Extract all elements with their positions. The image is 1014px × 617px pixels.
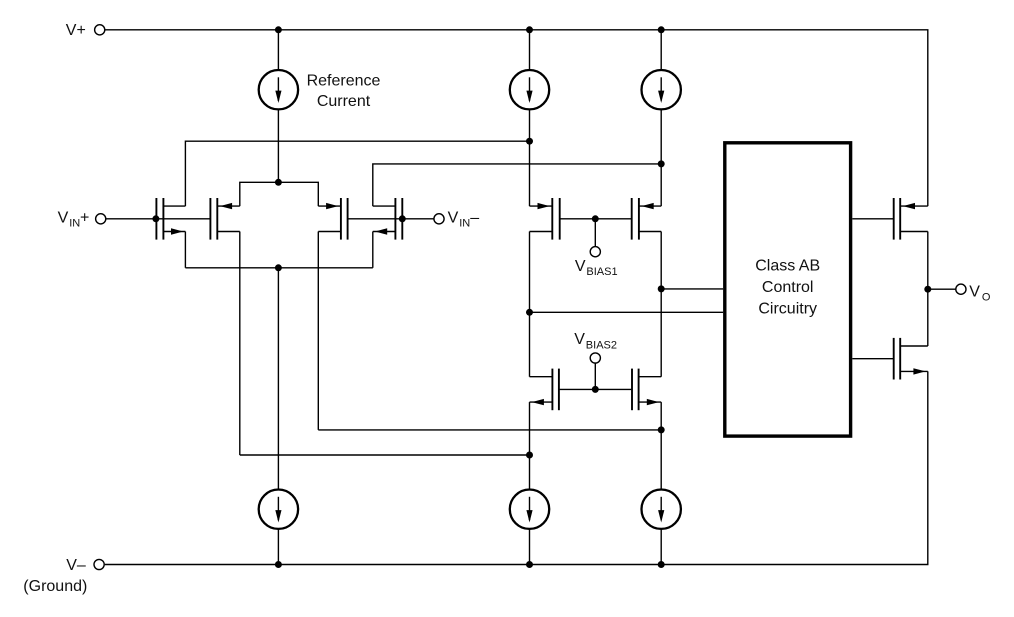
wire I1 to input PMOS tail xyxy=(277,109,279,182)
node Q5 summing tap xyxy=(526,309,533,316)
wire lower-left source column xyxy=(529,402,531,489)
wire NMOS tail xyxy=(185,267,372,269)
svg-text:–: – xyxy=(470,209,479,226)
label (Ground) xyxy=(23,578,87,595)
node PMOS tail xyxy=(275,179,282,186)
label VO xyxy=(969,284,991,304)
svg-text:Circuitry: Circuitry xyxy=(758,300,817,317)
svg-text:V: V xyxy=(58,209,69,226)
node VIN+/Q1 gate xyxy=(152,215,159,222)
svg-text:BIAS2: BIAS2 xyxy=(586,339,617,351)
transistor Q4 (VIN- outer NMOS) xyxy=(373,198,403,240)
wire VBIAS2 stub xyxy=(594,363,596,389)
wire PMOS tail split xyxy=(240,182,318,206)
wire VO lead xyxy=(928,288,956,290)
terminal V+ xyxy=(95,25,105,35)
svg-text:Current: Current xyxy=(317,93,371,110)
node Q6 summing tap xyxy=(658,285,665,292)
wire I3 top lead xyxy=(660,30,662,70)
transistor Q8 (lower mirror right) xyxy=(632,369,661,411)
wire I2 top lead xyxy=(529,30,531,70)
label VBIAS1 xyxy=(575,258,618,278)
wire VIN- lead xyxy=(348,218,434,220)
node mirror-left junction xyxy=(526,452,533,459)
wire Q5 source down xyxy=(529,232,531,377)
node V-/left-sink junction xyxy=(275,561,282,568)
svg-text:+: + xyxy=(80,209,89,226)
transistor Q7 (lower mirror left) xyxy=(530,369,559,411)
wire Q6 source down xyxy=(660,232,662,377)
wire Q3 drain down xyxy=(317,232,319,430)
label V+ xyxy=(66,22,86,39)
node VO xyxy=(924,286,931,293)
wire V+ rail xyxy=(105,30,928,206)
wire summing line 2 to box xyxy=(530,311,724,313)
node V-/right-sink junction xyxy=(658,561,665,568)
svg-text:Reference: Reference xyxy=(307,73,381,90)
wire Q3-drain to mirror-right xyxy=(318,429,661,431)
terminal VO xyxy=(956,284,966,294)
node T4-drain tap xyxy=(658,160,665,167)
node mirror-right junction xyxy=(658,426,665,433)
label Class AB Control Circuitry xyxy=(755,258,820,318)
current source I2 xyxy=(510,70,549,109)
wire Q2-drain to mirror-left xyxy=(240,454,530,456)
label VIN- xyxy=(448,209,480,229)
current source I1 Reference Current xyxy=(259,70,298,109)
svg-text:O: O xyxy=(982,291,991,303)
block Class AB Control Circuitry xyxy=(725,143,851,436)
wire VBIAS1 stub xyxy=(594,219,596,247)
transistor Q6 (upper cascode right) xyxy=(632,198,662,240)
node V-/middle-sink junction xyxy=(526,561,533,568)
wire box to output NMOS gate xyxy=(852,358,893,360)
wire Q2 drain down xyxy=(239,232,241,456)
svg-text:V–: V– xyxy=(66,557,86,574)
current source I4 xyxy=(259,490,298,529)
wire Q1 drain up xyxy=(185,141,529,206)
terminal V- (Ground) xyxy=(94,559,104,569)
svg-text:Class AB: Class AB xyxy=(755,258,820,275)
label V- xyxy=(66,557,86,574)
wire I2 to cascode column xyxy=(529,109,531,206)
transistor Q1 (VIN+ outer NMOS) xyxy=(156,198,185,240)
wire I4 bottom lead xyxy=(277,529,279,565)
wire Q4 source down xyxy=(372,232,374,268)
wire VBIAS1 gate tie xyxy=(560,218,632,220)
wire box to output PMOS gate xyxy=(852,218,893,220)
transistor Q5 (upper cascode left) xyxy=(530,198,560,240)
svg-text:(Ground): (Ground) xyxy=(23,578,87,595)
transistor Q9 (output PMOS) xyxy=(894,198,928,240)
svg-text:Control: Control xyxy=(762,279,814,296)
transistor Q2 (VIN+ inner PMOS) xyxy=(210,198,239,240)
node VBIAS2 gate xyxy=(592,386,599,393)
node VIN-/Q4 gate xyxy=(399,215,406,222)
wire Q1 source down xyxy=(184,232,186,268)
terminal VBIAS2 xyxy=(590,353,600,363)
svg-text:IN: IN xyxy=(459,217,470,229)
wire summing line 1 to box xyxy=(661,288,723,290)
wire output node xyxy=(927,232,929,347)
wire I1 top lead xyxy=(277,30,279,70)
current source I5 xyxy=(510,490,549,529)
wire I5 bottom lead xyxy=(529,529,531,565)
terminal VBIAS1 xyxy=(590,247,600,257)
label VIN+ xyxy=(58,209,90,229)
svg-text:V+: V+ xyxy=(66,22,86,39)
svg-text:V: V xyxy=(574,331,585,348)
wire I3 to cascode column xyxy=(660,109,662,206)
terminal VIN- xyxy=(434,214,444,224)
svg-text:BIAS1: BIAS1 xyxy=(586,266,617,278)
current source I3 xyxy=(642,70,681,109)
node V+/third-source junction xyxy=(658,26,665,33)
label VBIAS2 xyxy=(574,331,617,351)
terminal VIN+ xyxy=(96,214,106,224)
node V+/second-source junction xyxy=(526,26,533,33)
node T1-drain tap xyxy=(526,138,533,145)
svg-text:IN: IN xyxy=(69,217,80,229)
transistor Q10 (output NMOS) xyxy=(894,338,928,380)
wire lower-right source column xyxy=(660,402,662,489)
wire VIN+ lead xyxy=(106,218,210,220)
transistor Q3 (VIN- inner PMOS) xyxy=(318,198,347,240)
wire Q4 drain up xyxy=(373,164,661,206)
wire I6 bottom lead xyxy=(660,529,662,565)
wire NMOS tail to I4 xyxy=(277,268,279,490)
svg-text:V: V xyxy=(575,258,586,275)
node V+/reference-current junction xyxy=(275,26,282,33)
svg-text:V: V xyxy=(969,284,980,301)
wire V- rail xyxy=(105,371,928,564)
label Reference Current xyxy=(307,73,381,110)
svg-text:V: V xyxy=(448,209,459,226)
wire VBIAS2 gate tie xyxy=(559,388,632,390)
node NMOS tail xyxy=(275,264,282,271)
current source I6 xyxy=(642,490,681,529)
node VBIAS1 gate xyxy=(592,215,599,222)
